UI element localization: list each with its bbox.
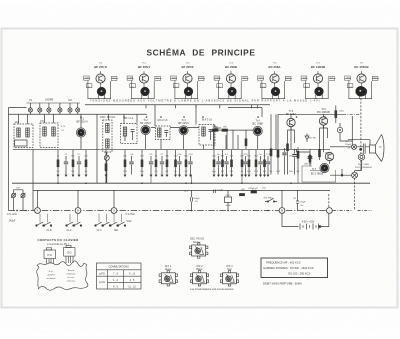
svg-text:FREQUENCE MF : 452 KCS: FREQUENCE MF : 452 KCS [266, 260, 301, 264]
svg-text:enfoncée: enfoncée [66, 274, 76, 276]
svg-text:M.F.2 L5: M.F.2 L5 [158, 118, 169, 122]
svg-text:NTC 130Ω: NTC 130Ω [358, 164, 369, 166]
svg-text:(2T): (2T) [184, 191, 188, 193]
svg-text:BF 225/2: BF 225/2 [182, 65, 194, 69]
svg-text:BZY 88: BZY 88 [304, 163, 312, 165]
svg-text:BF 225/4: BF 225/4 [140, 121, 151, 125]
svg-text:100µF: 100µF [299, 202, 306, 204]
svg-text:1V2: 1V2 [199, 78, 202, 80]
svg-text:4 . 5: 4 . 5 [130, 279, 135, 282]
svg-text:GO: GO [15, 122, 19, 124]
svg-text:le ct.: le ct. [49, 270, 54, 273]
svg-text:220µF: 220µF [345, 144, 352, 146]
svg-text:M: M [281, 210, 283, 213]
svg-text:Touche: Touche [67, 270, 75, 272]
svg-text:WS: WS [223, 126, 227, 128]
svg-text:4V5: 4V5 [243, 78, 246, 80]
svg-text:C1.B: C1.B [46, 230, 52, 232]
svg-text:Rouge: Rouge [193, 241, 201, 244]
svg-text:BC 148/1B: BC 148/1B [311, 65, 325, 69]
svg-text:GO 150 , 290 KCS: GO 150 , 290 KCS [288, 272, 311, 276]
svg-text:1V2: 1V2 [259, 77, 262, 79]
svg-text:BC 178/1B: BC 178/1B [311, 171, 324, 175]
svg-text:BC 148/1B: BC 148/1B [317, 110, 330, 114]
svg-text:BC 208A: BC 208A [269, 65, 282, 69]
svg-text:100n: 100n [339, 111, 345, 113]
svg-text:BF 215 N: BF 215 N [94, 65, 106, 69]
svg-text:CONTACTS DU CLAVIER: CONTACTS DU CLAVIER [37, 238, 79, 242]
svg-text:4,5V + 4,5V: 4,5V + 4,5V [302, 221, 315, 224]
svg-text:g.GO: g.GO [99, 281, 105, 284]
svg-text:6 . 9: 6 . 9 [113, 285, 118, 288]
svg-text:SCHÉMA DE PRINCIPE: SCHÉMA DE PRINCIPE [147, 46, 256, 57]
svg-text:C1.2: C1.2 [67, 230, 73, 232]
svg-text:10kΩ: 10kΩ [225, 205, 231, 207]
svg-text:1V2: 1V2 [156, 78, 159, 80]
svg-text:0V8: 0V8 [349, 87, 352, 89]
svg-text:1V4: 1V4 [303, 77, 306, 79]
svg-text:BC 208B: BC 208B [253, 122, 264, 126]
svg-text:11 . 12: 11 . 12 [128, 285, 136, 288]
svg-text:MF 1 L4: MF 1 L4 [124, 116, 134, 120]
svg-text:sont ouv.: sont ouv. [67, 279, 76, 282]
svg-text:0V8: 0V8 [305, 87, 308, 89]
svg-text:GO: GO [68, 99, 72, 102]
svg-text:GAMMES D'ONDES : PO 520 , 1620: GAMMES D'ONDES : PO 520 , 1620 KCS [263, 266, 314, 270]
svg-text:PO: PO [40, 121, 44, 123]
svg-text:4,7µF: 4,7µF [217, 190, 223, 192]
svg-text:CADRE: CADRE [45, 98, 54, 101]
svg-text:BF 225/1: BF 225/1 [178, 121, 189, 125]
svg-text:C.V.OSC: C.V.OSC [125, 214, 135, 216]
svg-text:8V2: 8V2 [330, 78, 333, 80]
svg-text:57µF: 57µF [126, 221, 132, 223]
svg-text:100µF: 100µF [193, 198, 200, 200]
svg-text:M.F.3 L6: M.F.3 L6 [202, 118, 213, 122]
svg-text:INT. REC.: INT. REC. [264, 198, 274, 200]
svg-text:POT.: POT. [226, 195, 231, 197]
svg-text:142µF: 142µF [9, 221, 16, 223]
svg-text:C.N. ACC: C.N. ACC [7, 213, 17, 216]
svg-text:1V6: 1V6 [112, 78, 115, 80]
svg-text:8V2: 8V2 [373, 78, 376, 80]
svg-text:0V6: 0V6 [262, 87, 265, 89]
svg-text:Les Condensateurs sont vus de: Les Condensateurs sont vus de dessous [190, 288, 234, 291]
svg-text:les cts.: les cts. [68, 276, 75, 279]
svg-text:est fermé: est fermé [46, 277, 56, 280]
svg-text:OA90: OA90 [212, 125, 218, 128]
svg-text:BC 178/1B: BC 178/1B [354, 65, 368, 69]
svg-text:BF 215 N: BF 215 N [77, 120, 88, 124]
svg-text:1 . 2: 1 . 2 [113, 279, 118, 282]
svg-text:BF 225/4: BF 225/4 [138, 65, 150, 69]
svg-text:C1.3: C1.3 [97, 230, 103, 232]
svg-text:7 . 8: 7 . 8 [113, 272, 118, 275]
svg-text:DEBIT SANS PERTURB : 60MA: DEBIT SANS PERTURB : 60MA [263, 282, 302, 286]
svg-text:9 . 11: 9 . 11 [129, 272, 136, 275]
svg-text:1V4: 1V4 [346, 77, 349, 79]
svg-text:GO-PO: GO-PO [47, 275, 55, 277]
svg-text:OSC. PO.GO: OSC. PO.GO [100, 115, 116, 119]
svg-text:4V5: 4V5 [286, 78, 289, 80]
svg-text:BZY 88: BZY 88 [308, 137, 316, 139]
svg-text:O: O [113, 210, 115, 213]
svg-text:g.PO: g.PO [99, 272, 105, 275]
svg-text:1Ω: 1Ω [379, 147, 382, 149]
svg-text:220µF 6V: 220µF 6V [248, 188, 258, 190]
svg-text:ECONOMISEUR: ECONOMISEUR [355, 167, 372, 169]
svg-text:560Ω: 560Ω [325, 153, 331, 155]
svg-text:BC 208B: BC 208B [225, 65, 237, 69]
svg-text:COMMUTATIONS: COMMUTATIONS [109, 266, 130, 269]
